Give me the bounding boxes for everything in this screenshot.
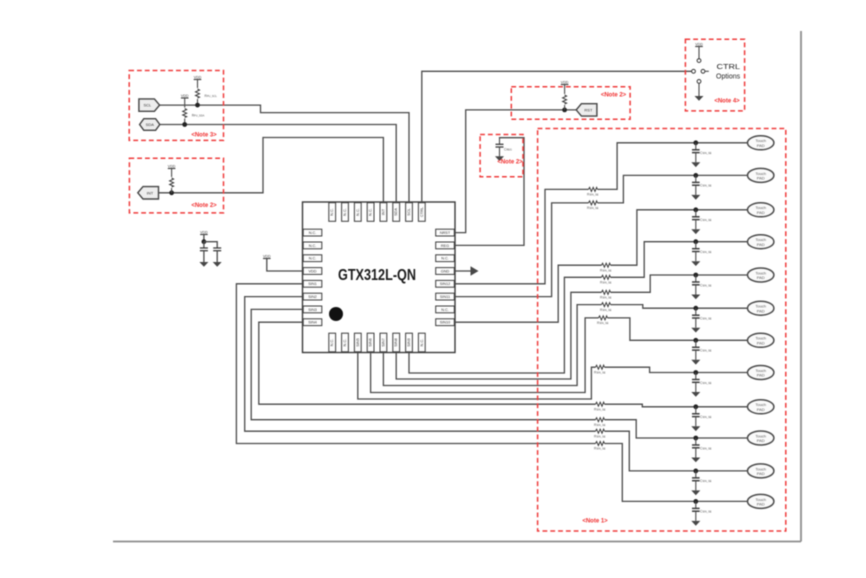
svg-text:REG: REG	[441, 244, 449, 248]
svg-text:N.C.: N.C.	[330, 208, 334, 216]
svg-text:CSIN_SE: CSIN_SE	[700, 317, 712, 321]
svg-text:CSIN_SE: CSIN_SE	[700, 479, 712, 483]
svg-text:N.C.: N.C.	[330, 339, 334, 347]
svg-text:N.C.: N.C.	[441, 308, 449, 312]
svg-text:<Note 1>: <Note 1>	[582, 519, 608, 525]
svg-text:RSIN_SE: RSIN_SE	[600, 296, 612, 300]
svg-text:SCL: SCL	[144, 103, 153, 108]
svg-text:VDD: VDD	[200, 230, 208, 234]
svg-text:SIN12: SIN12	[440, 282, 451, 286]
svg-text:N.C.: N.C.	[420, 339, 424, 347]
svg-text:RSIN_SE: RSIN_SE	[594, 370, 606, 374]
svg-text:SDA: SDA	[394, 208, 398, 216]
svg-text:PAD: PAD	[757, 502, 765, 507]
svg-text:CREG: CREG	[504, 148, 512, 152]
svg-text:N.C.: N.C.	[343, 339, 347, 347]
svg-text:RSIN_SE: RSIN_SE	[587, 206, 599, 210]
svg-text:RSIN_SE: RSIN_SE	[600, 281, 612, 285]
svg-text:CSIN_SE: CSIN_SE	[700, 250, 712, 254]
svg-text:SIN8: SIN8	[394, 338, 398, 346]
svg-text:RSIN_SE: RSIN_SE	[594, 407, 606, 411]
svg-text:N.C.: N.C.	[309, 257, 317, 261]
svg-text:PAD: PAD	[757, 242, 765, 247]
svg-text:VDD: VDD	[308, 269, 316, 273]
svg-text:VDD: VDD	[695, 42, 703, 46]
svg-text:RSIN_SE: RSIN_SE	[600, 268, 612, 272]
svg-text:RSIN_SE: RSIN_SE	[594, 423, 606, 427]
svg-text:CSIN_SE: CSIN_SE	[700, 283, 712, 287]
svg-text:CSIN_SE: CSIN_SE	[700, 415, 712, 419]
svg-text:N.C.: N.C.	[343, 208, 347, 216]
svg-text:PAD: PAD	[757, 275, 765, 280]
svg-text:CTRL: CTRL	[420, 207, 424, 217]
svg-text:RPU_SCL: RPU_SCL	[205, 94, 218, 98]
svg-text:SIN2: SIN2	[308, 295, 316, 299]
svg-text:RSIN_SE: RSIN_SE	[600, 308, 612, 312]
svg-text:NRST: NRST	[440, 231, 451, 235]
svg-text:SCL: SCL	[407, 208, 411, 215]
svg-text:GTX312L-QN: GTX312L-QN	[338, 267, 416, 284]
svg-text:PAD: PAD	[757, 407, 765, 412]
svg-text:CSIN_SE: CSIN_SE	[700, 510, 712, 514]
svg-text:PAD: PAD	[757, 143, 765, 148]
svg-text:N.C.: N.C.	[309, 244, 317, 248]
svg-text:RST: RST	[584, 107, 593, 112]
svg-text:N.C.: N.C.	[356, 208, 360, 216]
svg-text:VDD: VDD	[263, 254, 271, 258]
svg-text:<Note 2>: <Note 2>	[497, 159, 523, 165]
svg-text:RSIN_SE: RSIN_SE	[597, 321, 609, 325]
svg-text:SIN4: SIN4	[308, 321, 316, 325]
svg-text:RSIN_SE: RSIN_SE	[594, 434, 606, 438]
svg-text:<Note 4>: <Note 4>	[714, 98, 740, 104]
svg-text:PAD: PAD	[757, 341, 765, 346]
svg-text:INT: INT	[381, 208, 385, 215]
svg-text:<Note 2>: <Note 2>	[191, 203, 217, 209]
svg-text:SDA: SDA	[146, 122, 155, 127]
svg-text:CTRL: CTRL	[717, 64, 741, 71]
svg-text:SIN7: SIN7	[381, 338, 385, 346]
svg-text:RPU_SDA: RPU_SDA	[192, 114, 205, 118]
svg-text:SIN5: SIN5	[356, 338, 360, 346]
svg-text:VDD: VDD	[168, 164, 176, 168]
svg-text:SIN6: SIN6	[369, 338, 373, 346]
svg-text:SIN10: SIN10	[440, 321, 451, 325]
svg-text:PAD: PAD	[757, 471, 765, 476]
svg-text:RSIN_SE: RSIN_SE	[594, 447, 606, 451]
svg-text:CSIN_SE: CSIN_SE	[700, 446, 712, 450]
svg-text:Options: Options	[716, 74, 741, 81]
svg-text:SIN1: SIN1	[308, 282, 316, 286]
svg-text:N.C.: N.C.	[369, 208, 373, 216]
svg-text:VDD: VDD	[561, 80, 569, 84]
svg-text:RSIN_SE: RSIN_SE	[587, 193, 599, 197]
svg-text:CSIN_SE: CSIN_SE	[700, 381, 712, 385]
svg-text:PAD: PAD	[757, 438, 765, 443]
svg-text:PAD: PAD	[757, 308, 765, 313]
svg-text:PAD: PAD	[757, 210, 765, 215]
svg-text:SIN11: SIN11	[440, 295, 450, 299]
svg-text:INT: INT	[147, 190, 154, 195]
svg-text:<Note 3>: <Note 3>	[191, 133, 217, 139]
svg-text:<Note 2>: <Note 2>	[601, 92, 627, 98]
svg-text:PAD: PAD	[757, 176, 765, 181]
svg-text:VDD: VDD	[194, 75, 202, 79]
svg-text:PAD: PAD	[757, 373, 765, 378]
svg-text:SIN9: SIN9	[407, 338, 411, 346]
svg-text:N.C.: N.C.	[309, 231, 317, 235]
svg-text:VDD: VDD	[181, 94, 189, 98]
svg-text:GND: GND	[441, 269, 450, 273]
svg-text:N.C.: N.C.	[441, 257, 449, 261]
svg-text:CSIN_SE: CSIN_SE	[700, 184, 712, 188]
svg-text:CSIN_SE: CSIN_SE	[700, 151, 712, 155]
svg-text:CSIN_SE: CSIN_SE	[700, 349, 712, 353]
svg-text:SIN3: SIN3	[308, 308, 316, 312]
svg-text:CSIN_SE: CSIN_SE	[700, 218, 712, 222]
